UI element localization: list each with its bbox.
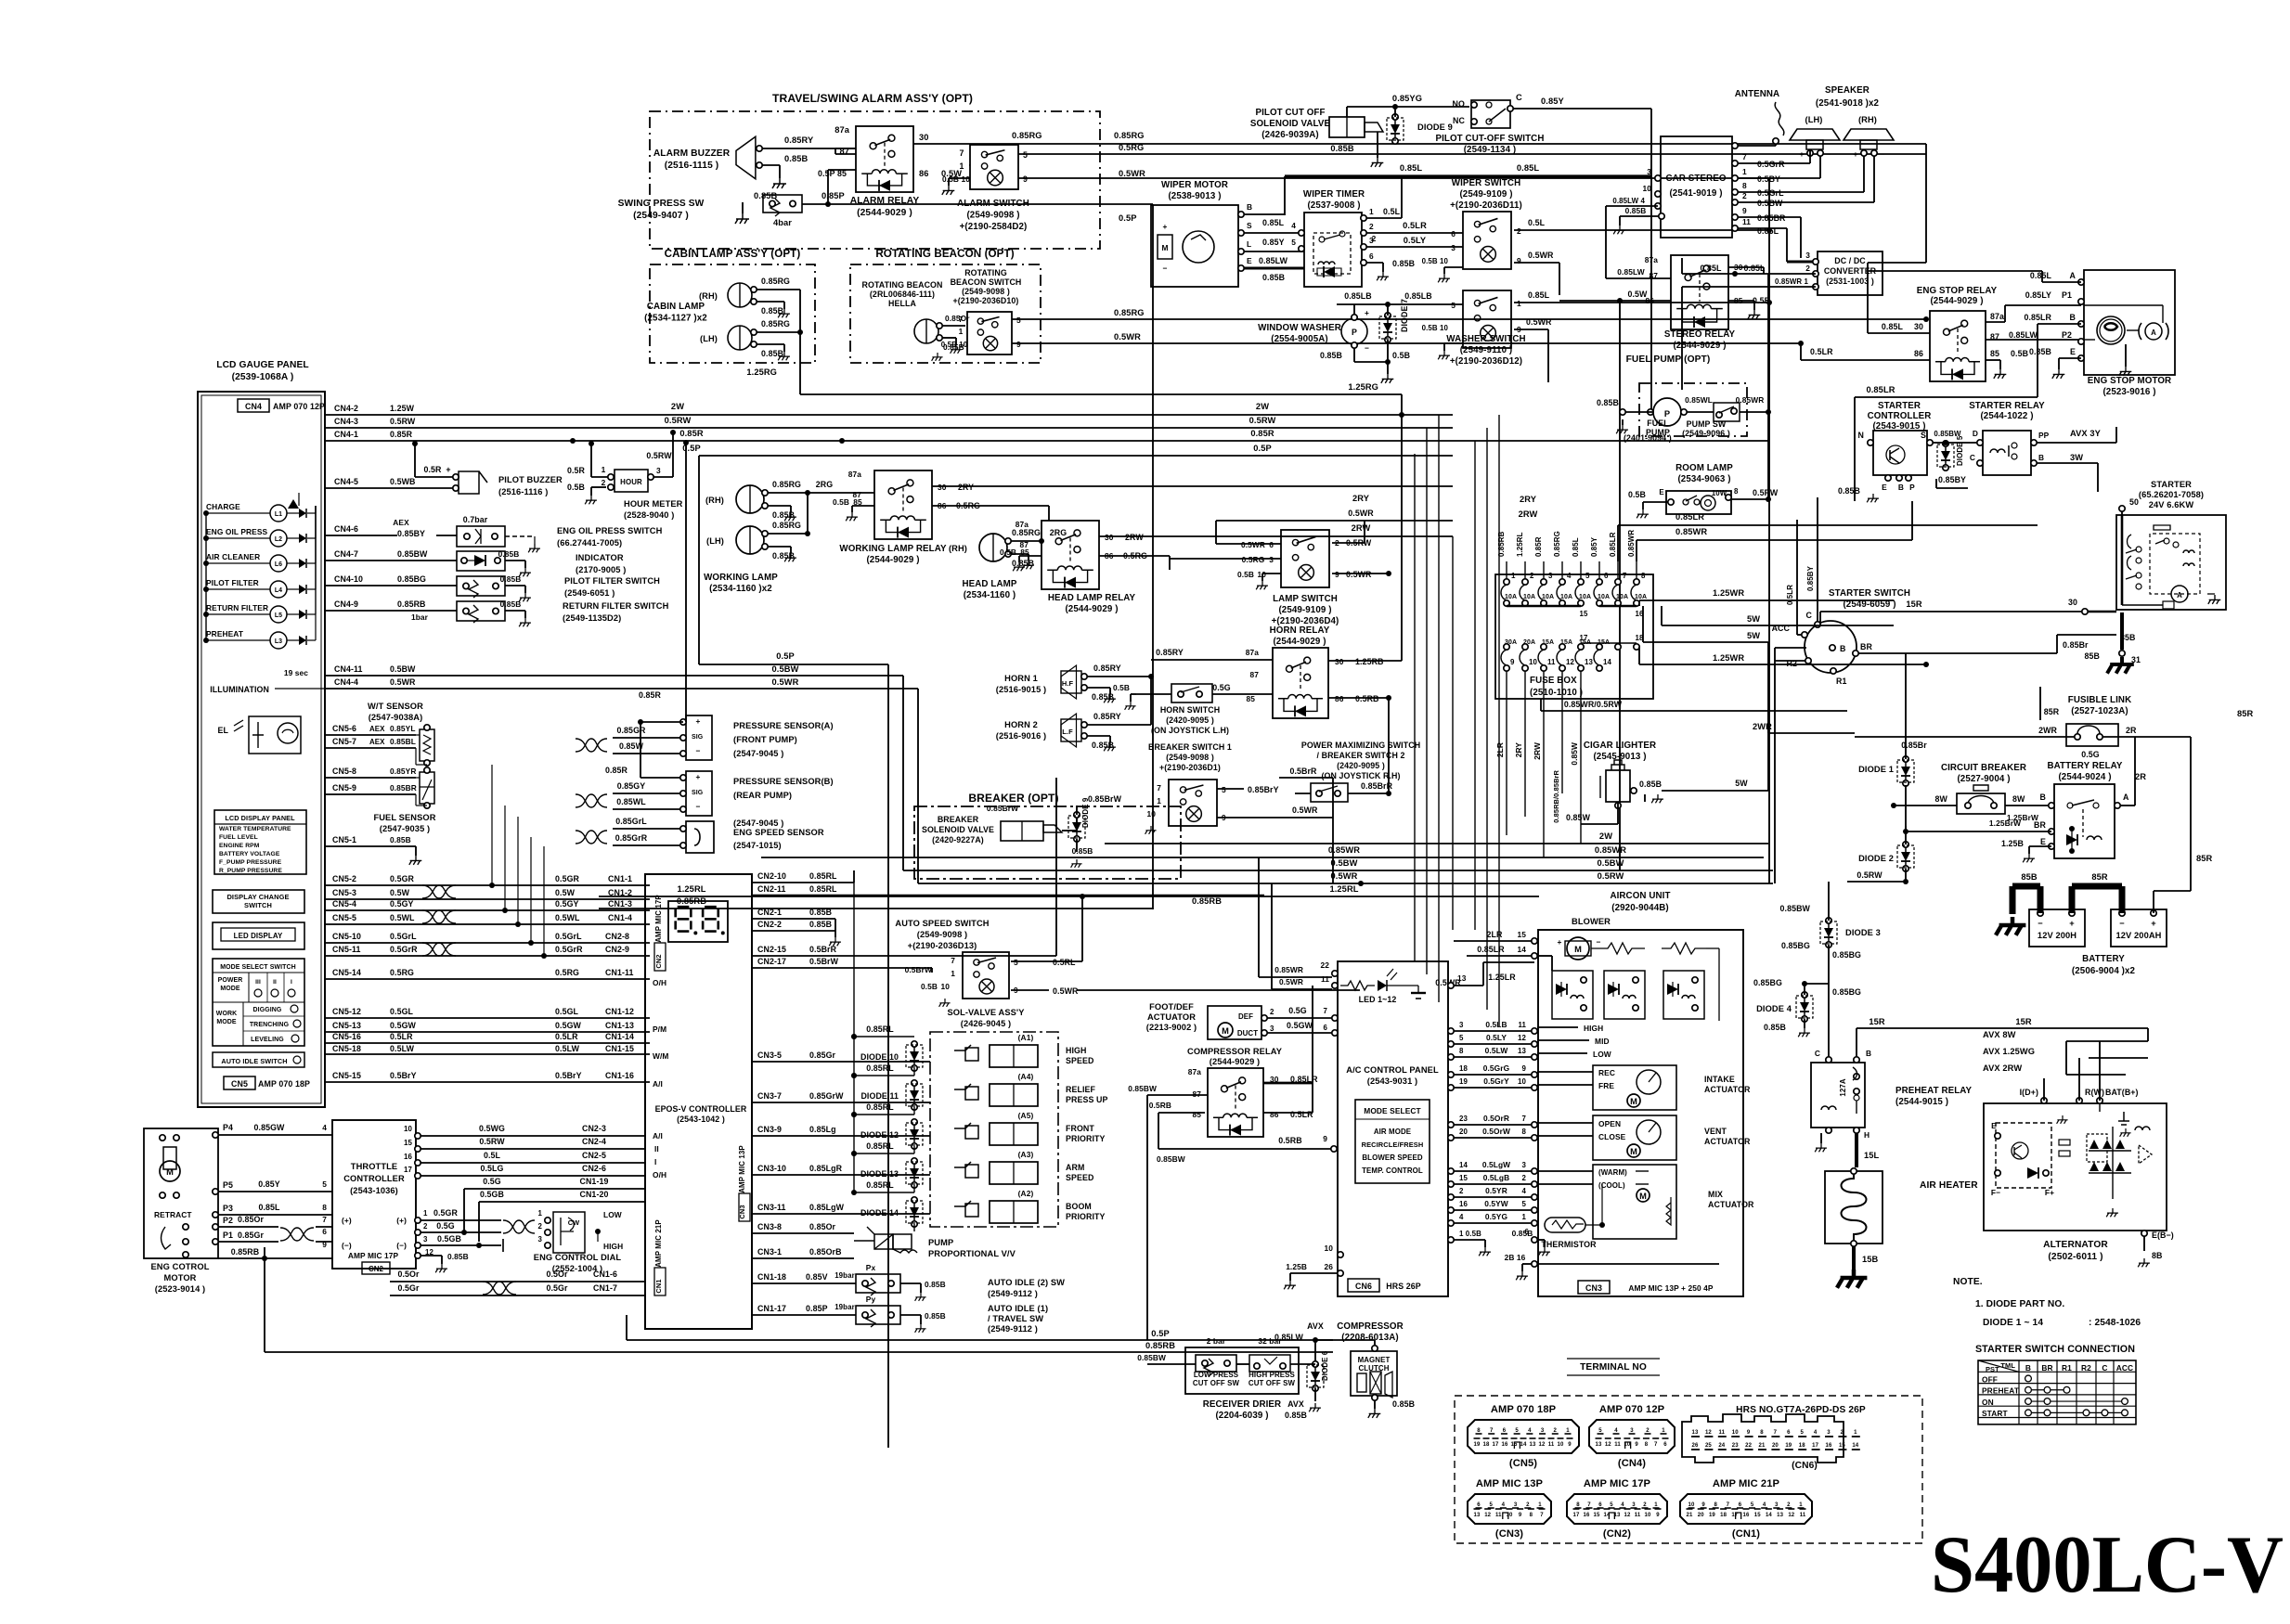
svg-text:0.5L: 0.5L xyxy=(1383,207,1401,216)
wire 0.5RB xyxy=(1149,1101,1337,1152)
svg-text:0.85Or: 0.85Or xyxy=(238,1215,265,1224)
svg-text:10W: 10W xyxy=(1712,489,1727,497)
svg-text:CN3: CN3 xyxy=(738,1205,746,1218)
horn 1 wires xyxy=(1087,664,1154,702)
svg-text:AIR CLEANER: AIR CLEANER xyxy=(206,552,260,561)
svg-text:14: 14 xyxy=(1766,1513,1772,1518)
svg-text:(CN5): (CN5) xyxy=(1509,1458,1537,1469)
wire 0.5P below xyxy=(828,204,1153,909)
svg-text:DIODE 3: DIODE 3 xyxy=(1845,928,1881,937)
CN5-15 wire xyxy=(325,1071,650,1082)
svg-text:4: 4 xyxy=(1621,1502,1624,1508)
svg-text:S400LC-V: S400LC-V xyxy=(1931,1520,2284,1610)
svg-text:9: 9 xyxy=(1323,1134,1327,1143)
svg-text:0.85BrW: 0.85BrW xyxy=(1088,794,1122,804)
alternator rectifier xyxy=(2087,1127,2152,1217)
svg-text:11: 11 xyxy=(1321,974,1329,984)
svg-text:0.85B: 0.85B xyxy=(1262,273,1285,282)
washer sw labels xyxy=(1422,299,1521,359)
svg-text:B: B xyxy=(1840,644,1845,653)
svg-text:2LR: 2LR xyxy=(1495,742,1505,757)
CN5-7 wire xyxy=(325,737,416,748)
svg-text:0.5B: 0.5B xyxy=(921,982,938,991)
svg-text:7: 7 xyxy=(1522,1115,1527,1123)
connector CN2 xyxy=(1567,1478,1667,1540)
svg-text:0.85V: 0.85V xyxy=(806,1272,828,1282)
eng speed sensor xyxy=(576,817,824,853)
svg-text:0.5B: 0.5B xyxy=(1237,570,1254,579)
receiver drier 32bar xyxy=(1249,1336,1296,1387)
svg-text:B: B xyxy=(2040,793,2046,802)
stereo wire 0.85BR xyxy=(1738,217,1801,258)
throttle dial wires xyxy=(420,1208,535,1272)
svg-text:9: 9 xyxy=(1016,340,1021,349)
svg-text:0.5BW: 0.5BW xyxy=(1331,858,1358,868)
svg-text:(2549-9096 ): (2549-9096 ) xyxy=(1682,429,1730,438)
wire 0.5WR xyxy=(1018,169,1769,883)
svg-text:LOW: LOW xyxy=(1593,1050,1611,1059)
wiper motor label xyxy=(1161,180,1228,201)
svg-text:DC / DC: DC / DC xyxy=(1834,256,1866,265)
car stereo pins right xyxy=(1732,143,1738,231)
svg-text:PST: PST xyxy=(1986,1365,1999,1373)
svg-text:0.85RL: 0.85RL xyxy=(866,1025,894,1034)
svg-text:CN2-4: CN2-4 xyxy=(582,1137,606,1146)
svg-text:CLOSE: CLOSE xyxy=(1598,1132,1626,1141)
svg-text:30: 30 xyxy=(938,483,947,492)
svg-text:M: M xyxy=(1222,1026,1229,1036)
svg-text:N: N xyxy=(1858,431,1864,440)
svg-text:0.85B: 0.85B xyxy=(1625,206,1647,215)
svg-text:2LR: 2LR xyxy=(1487,930,1504,939)
svg-text:19 sec: 19 sec xyxy=(284,668,308,677)
svg-text:19bar: 19bar xyxy=(834,1271,855,1280)
washer switch box xyxy=(1463,290,1511,348)
wire 0.85B buzzer gnd xyxy=(762,154,808,188)
svg-text:B: B xyxy=(1898,483,1904,492)
room lamp label xyxy=(1675,463,1733,484)
svg-text:(2534-1127 )x2: (2534-1127 )x2 xyxy=(644,314,707,324)
svg-text:BLOWER SPEED: BLOWER SPEED xyxy=(1362,1154,1423,1162)
svg-text:(2544-9029 ): (2544-9029 ) xyxy=(1210,1057,1260,1066)
svg-text:(2549-9112 ): (2549-9112 ) xyxy=(988,1324,1038,1334)
svg-text:AMP 070 18P: AMP 070 18P xyxy=(258,1079,310,1089)
svg-text:S: S xyxy=(1247,221,1252,230)
svg-text:DISPLAY CHANGE: DISPLAY CHANGE xyxy=(226,893,289,901)
svg-text:PREHEAT: PREHEAT xyxy=(206,629,244,638)
pilot buzzer wire CN4-5 xyxy=(325,477,459,488)
svg-text:86: 86 xyxy=(1335,694,1344,703)
throttle controller box xyxy=(332,1120,416,1274)
svg-text:0.5RB: 0.5RB xyxy=(1149,1101,1171,1110)
svg-text:0.85B: 0.85B xyxy=(1639,780,1662,789)
svg-text:0.5GR: 0.5GR xyxy=(433,1208,459,1218)
svg-text:12: 12 xyxy=(1705,1430,1712,1436)
svg-text:CN4-5: CN4-5 xyxy=(334,477,358,486)
work mode rows xyxy=(216,1002,304,1046)
svg-text:0.85RL: 0.85RL xyxy=(809,884,837,894)
svg-text:2RW: 2RW xyxy=(1125,533,1144,542)
svg-text:1 0.5B: 1 0.5B xyxy=(1459,1230,1481,1238)
svg-text:AUTO SPEED SWITCH: AUTO SPEED SWITCH xyxy=(895,919,989,928)
svg-text:CN3-9: CN3-9 xyxy=(757,1125,782,1134)
svg-text:0.5LR: 0.5LR xyxy=(1786,585,1794,605)
svg-text:14: 14 xyxy=(1518,945,1527,954)
circuit breaker xyxy=(1935,763,2027,814)
svg-text:BOOM: BOOM xyxy=(1066,1202,1092,1211)
auto speed wires xyxy=(1011,896,1461,996)
rotating beacon lamp xyxy=(914,319,942,343)
svg-text:BR: BR xyxy=(2041,1363,2052,1373)
svg-text:AMP MIC 21P: AMP MIC 21P xyxy=(1713,1478,1780,1489)
svg-text:0.85RB: 0.85RB xyxy=(231,1247,260,1257)
svg-text:3: 3 xyxy=(1647,167,1651,176)
svg-text:Px: Px xyxy=(866,1263,876,1272)
svg-text:23: 23 xyxy=(1459,1115,1468,1123)
svg-text:0.5P: 0.5P xyxy=(1119,213,1137,223)
svg-text:(2544-9024 ): (2544-9024 ) xyxy=(2058,772,2111,782)
svg-text:−: − xyxy=(1827,149,1831,159)
speaker LH xyxy=(1790,115,1840,159)
svg-text:HORN 1: HORN 1 xyxy=(1004,674,1038,683)
svg-text:AUTO IDLE (1): AUTO IDLE (1) xyxy=(988,1304,1048,1313)
lamp switch wires xyxy=(1170,509,1453,589)
svg-text:2W: 2W xyxy=(671,402,684,411)
svg-text:(2204-6039 ): (2204-6039 ) xyxy=(1215,1411,1268,1421)
svg-text:LEVELING: LEVELING xyxy=(251,1037,284,1043)
wire 0.85BY xyxy=(1936,475,1968,488)
svg-text:DIODE 9: DIODE 9 xyxy=(1417,122,1453,132)
svg-text:DIODE 1 ~ 14: DIODE 1 ~ 14 xyxy=(1983,1318,2043,1328)
preheat relay out xyxy=(1815,1128,1879,1167)
svg-text:16: 16 xyxy=(1743,1513,1750,1518)
retract xyxy=(154,1210,192,1257)
svg-text:17: 17 xyxy=(1812,1443,1818,1449)
wire 0.5LY xyxy=(1366,236,1463,247)
svg-text:9: 9 xyxy=(1519,1513,1522,1518)
svg-text:0.85L: 0.85L xyxy=(1400,163,1422,173)
svg-text:10: 10 xyxy=(1507,1513,1513,1518)
svg-text:ALARM BUZZER: ALARM BUZZER xyxy=(653,148,731,159)
svg-text:2 bar: 2 bar xyxy=(1207,1336,1226,1346)
svg-text:0.85R: 0.85R xyxy=(390,430,413,439)
svg-text:0.85GR: 0.85GR xyxy=(616,726,646,735)
svg-text:0.5GW: 0.5GW xyxy=(390,1021,417,1030)
svg-text:0.85RB: 0.85RB xyxy=(397,599,426,609)
svg-text:0.5LR: 0.5LR xyxy=(1290,1110,1313,1119)
svg-text:0.5GrY: 0.5GrY xyxy=(1483,1076,1509,1086)
svg-text:0.5BrY: 0.5BrY xyxy=(390,1071,417,1080)
svg-text:ANTENNA: ANTENNA xyxy=(1735,89,1779,99)
svg-text:0.85Br: 0.85Br xyxy=(2063,640,2089,650)
svg-text:LCD GAUGE PANEL: LCD GAUGE PANEL xyxy=(216,360,309,370)
svg-text:2R: 2R xyxy=(2126,726,2137,735)
svg-text:0.85B: 0.85B xyxy=(925,1311,946,1321)
svg-text:(2547-9035 ): (2547-9035 ) xyxy=(380,824,430,833)
svg-text:EL: EL xyxy=(218,726,229,735)
wire 0.5P down xyxy=(699,651,888,1448)
wire 0.85BW long xyxy=(1147,1095,1185,1340)
svg-text:COMPRESSOR RELAY: COMPRESSOR RELAY xyxy=(1187,1047,1283,1056)
svg-text:CN5-6: CN5-6 xyxy=(332,724,356,733)
svg-text:0.5RW: 0.5RW xyxy=(1753,488,1779,497)
svg-text:CN1-16: CN1-16 xyxy=(605,1071,634,1080)
blower relay 1 xyxy=(1552,971,1593,1019)
svg-text:(REAR PUMP): (REAR PUMP) xyxy=(733,791,792,800)
svg-text:CN2: CN2 xyxy=(654,954,663,968)
diode 2 xyxy=(1858,785,1988,871)
svg-text:SOLENOID VALVE: SOLENOID VALVE xyxy=(1250,119,1331,129)
wt sensor symbol xyxy=(416,725,434,766)
svg-text:0.85RY: 0.85RY xyxy=(1093,712,1121,721)
svg-text:CUT OFF SW: CUT OFF SW xyxy=(1193,1379,1240,1387)
CN3-11 wire xyxy=(752,1203,930,1214)
svg-text:12: 12 xyxy=(1484,1513,1491,1518)
svg-text:VENT: VENT xyxy=(1704,1127,1727,1136)
svg-text:CN2-6: CN2-6 xyxy=(582,1164,606,1173)
svg-text:W/M: W/M xyxy=(653,1051,668,1061)
svg-text:0.85GrL: 0.85GrL xyxy=(615,817,647,826)
CN4-7 wire + indicator xyxy=(325,549,626,576)
svg-text:RECEIVER DRIER: RECEIVER DRIER xyxy=(1203,1399,1281,1410)
svg-text:7: 7 xyxy=(1490,1428,1494,1434)
cabin lamp RH wires xyxy=(757,277,800,317)
svg-text:(2549-9098 ): (2549-9098 ) xyxy=(966,211,1019,221)
svg-text:8: 8 xyxy=(1742,181,1747,190)
svg-text:0.5LR: 0.5LR xyxy=(555,1032,578,1041)
svg-text:(2544-1022 ): (2544-1022 ) xyxy=(1980,411,2033,421)
svg-text:(2516-9015 ): (2516-9015 ) xyxy=(996,685,1046,694)
starter box xyxy=(2116,480,2226,610)
auto idle 2 sw xyxy=(856,1263,1065,1301)
svg-text:6: 6 xyxy=(1451,229,1456,238)
svg-text:SIG: SIG xyxy=(692,734,703,741)
svg-text:2RY: 2RY xyxy=(958,483,974,492)
svg-text:24V 6.6KW: 24V 6.6KW xyxy=(2149,500,2194,509)
cabin lamp label xyxy=(644,302,707,324)
psA label xyxy=(733,721,834,758)
window washer xyxy=(1258,308,1369,353)
connector CN1 xyxy=(1680,1478,1812,1540)
stereo speaker wires xyxy=(1738,150,1874,202)
svg-text:CN3-11: CN3-11 xyxy=(757,1203,786,1212)
sol valve 0.85RL feeds xyxy=(851,1025,905,1190)
diode 1 xyxy=(1858,687,1927,786)
svg-text:0.85RY: 0.85RY xyxy=(1156,648,1184,657)
svg-text:(2510-1010 ): (2510-1010 ) xyxy=(1530,688,1583,698)
svg-text:0.85B: 0.85B xyxy=(925,1280,946,1289)
horn relay wires xyxy=(1151,415,1402,738)
starter relay wires xyxy=(2037,427,2116,492)
svg-text:(2543-9015 ): (2543-9015 ) xyxy=(1872,421,1925,432)
svg-text:WORK: WORK xyxy=(216,1011,237,1017)
svg-text:(2534-1160 )x2: (2534-1160 )x2 xyxy=(709,584,772,594)
svg-text:0.5RW: 0.5RW xyxy=(665,416,692,425)
svg-text:(2516-1116 ): (2516-1116 ) xyxy=(498,487,548,496)
wire 5W a xyxy=(1662,606,1894,737)
svg-text:0.85B: 0.85B xyxy=(809,920,832,929)
CN4 bus CN4-2 xyxy=(325,402,1453,415)
svg-text:0.5RW: 0.5RW xyxy=(390,417,416,426)
svg-text:−: − xyxy=(696,746,701,755)
rotating beacon label xyxy=(862,280,943,308)
svg-text:ROOM LAMP: ROOM LAMP xyxy=(1675,463,1733,473)
svg-text:CN5-9: CN5-9 xyxy=(332,783,356,793)
svg-text:10: 10 xyxy=(1558,1442,1564,1448)
svg-text:85R: 85R xyxy=(2237,709,2254,718)
breaker sw1 wires xyxy=(1145,785,1333,883)
svg-text:BREAKER: BREAKER xyxy=(938,815,979,824)
svg-text:0.85BY: 0.85BY xyxy=(1938,475,1966,484)
svg-text:POWER MAXIMIZING SWITCH: POWER MAXIMIZING SWITCH xyxy=(1301,741,1420,750)
svg-text:SPEAKER: SPEAKER xyxy=(1825,85,1870,96)
battery relay internals xyxy=(2066,800,2102,854)
svg-text:15: 15 xyxy=(1580,610,1588,618)
svg-text:WORKING LAMP RELAY: WORKING LAMP RELAY xyxy=(839,544,947,554)
svg-text:20: 20 xyxy=(1698,1513,1704,1518)
svg-text:MODE: MODE xyxy=(220,986,240,992)
svg-text:0.5WG: 0.5WG xyxy=(479,1124,505,1133)
svg-text:M: M xyxy=(1630,1097,1637,1106)
dcdc pins xyxy=(1775,251,1818,290)
svg-text:CW: CW xyxy=(568,1218,580,1227)
svg-text:(2420-9227A): (2420-9227A) xyxy=(932,835,984,844)
alternator wires right xyxy=(2044,1028,2163,1267)
svg-text:DIGGING: DIGGING xyxy=(253,1007,282,1013)
svg-text:15: 15 xyxy=(1839,1443,1845,1449)
svg-text:PILOT CUT-OFF SWITCH: PILOT CUT-OFF SWITCH xyxy=(1435,134,1544,144)
svg-text:2: 2 xyxy=(1372,234,1377,243)
svg-text:CN4-3: CN4-3 xyxy=(334,417,358,426)
svg-text:8W: 8W xyxy=(2012,794,2025,804)
svg-text:FRONT: FRONT xyxy=(1066,1124,1094,1133)
svg-text:1bar: 1bar xyxy=(411,612,429,622)
eng stop motor pins xyxy=(2062,271,2084,361)
svg-text:HOUR METER: HOUR METER xyxy=(624,499,683,509)
svg-text:2RY: 2RY xyxy=(1352,494,1370,503)
svg-text:(2420-9095 ): (2420-9095 ) xyxy=(1337,761,1385,770)
svg-text:6: 6 xyxy=(1525,1228,1530,1236)
svg-text:(2516-1115 ): (2516-1115 ) xyxy=(665,161,719,171)
ac panel right pins xyxy=(1448,1020,1537,1226)
terminal dashed box xyxy=(1455,1396,1922,1543)
psB wires xyxy=(576,719,680,809)
svg-text:SWING PRESS SW: SWING PRESS SW xyxy=(618,199,705,209)
svg-text:+: + xyxy=(1163,222,1168,231)
svg-text:ENG OIL PRESS: ENG OIL PRESS xyxy=(206,527,268,536)
pressure switch 4bar xyxy=(763,191,845,227)
svg-text:3: 3 xyxy=(1541,1428,1545,1434)
rotating beacon switch label xyxy=(951,268,1022,305)
svg-text:(2549-9109 ): (2549-9109 ) xyxy=(1459,189,1512,200)
svg-text:HORN 2: HORN 2 xyxy=(1004,720,1038,729)
svg-text:P/M: P/M xyxy=(653,1025,666,1034)
horn relay xyxy=(1270,625,1330,718)
svg-text:CAR STEREO: CAR STEREO xyxy=(1665,174,1726,184)
pressure sensor A wires xyxy=(0,0,1,1)
svg-text:STEREO RELAY: STEREO RELAY xyxy=(1664,329,1736,340)
cabin lamp assy box xyxy=(650,248,815,363)
svg-text:PILOT CUT OFF: PILOT CUT OFF xyxy=(1255,108,1325,118)
terminal no label xyxy=(1567,1359,1660,1375)
pump prop valve xyxy=(854,1227,1016,1258)
wiper switch box xyxy=(1463,212,1511,269)
svg-text:PILOT BUZZER: PILOT BUZZER xyxy=(498,475,563,484)
svg-text:0.85YG: 0.85YG xyxy=(1392,94,1422,103)
svg-text:CABIN LAMP: CABIN LAMP xyxy=(647,302,705,312)
svg-text:10A: 10A xyxy=(1523,594,1535,600)
svg-text:REC: REC xyxy=(1598,1068,1615,1077)
svg-text:1: 1 xyxy=(959,161,964,171)
svg-text:+(2190-2036D4): +(2190-2036D4) xyxy=(1272,616,1339,626)
svg-text:0.5LB: 0.5LB xyxy=(1485,1020,1507,1029)
svg-text:0.5W: 0.5W xyxy=(390,888,410,897)
svg-text:P4: P4 xyxy=(223,1123,233,1132)
svg-text:CN1-3: CN1-3 xyxy=(608,899,632,909)
alternator box xyxy=(1984,1103,2167,1262)
speaker label xyxy=(1816,85,1880,109)
svg-text:BATTERY: BATTERY xyxy=(2082,954,2125,964)
svg-text:12: 12 xyxy=(1788,1513,1794,1518)
svg-text:0.85LW: 0.85LW xyxy=(2009,330,2038,340)
starter switch pins xyxy=(1772,611,1873,686)
horn 1 xyxy=(996,665,1087,699)
alarm relay xyxy=(850,126,920,218)
diodes 10-14 xyxy=(851,883,923,1231)
pilot cut off solenoid label xyxy=(1250,108,1331,140)
svg-text:14: 14 xyxy=(1603,658,1611,666)
svg-text:HIGH: HIGH xyxy=(603,1242,623,1251)
svg-text:2WR: 2WR xyxy=(1753,722,1772,731)
svg-text:4: 4 xyxy=(1522,1187,1527,1195)
svg-text:2: 2 xyxy=(1841,1430,1844,1436)
eng stop relay wires xyxy=(1801,144,2081,379)
svg-text:8: 8 xyxy=(1645,1442,1649,1448)
svg-text:CN3-1: CN3-1 xyxy=(757,1247,782,1257)
svg-text:PRIORITY: PRIORITY xyxy=(1066,1134,1106,1143)
svg-text:(2549-9098 ): (2549-9098 ) xyxy=(1166,753,1214,762)
svg-text:7: 7 xyxy=(1727,1502,1730,1508)
svg-text:FRE: FRE xyxy=(1598,1081,1614,1090)
svg-text:(2549-6051 ): (2549-6051 ) xyxy=(564,588,615,598)
svg-text:22: 22 xyxy=(1321,960,1330,970)
svg-text:0.85B: 0.85B xyxy=(1072,846,1093,856)
svg-text:CN5-8: CN5-8 xyxy=(332,767,356,776)
svg-text:(+): (+) xyxy=(342,1216,352,1225)
breaker sw1 pins xyxy=(1147,783,1227,822)
svg-text:CIRCUIT BREAKER: CIRCUIT BREAKER xyxy=(1941,763,2026,773)
svg-text:24: 24 xyxy=(1718,1443,1725,1449)
svg-text:+(2190-2036D1): +(2190-2036D1) xyxy=(1159,763,1221,772)
svg-text:3: 3 xyxy=(1805,251,1810,260)
svg-text:L1: L1 xyxy=(275,511,282,518)
wire 0.85BG down xyxy=(1829,950,1861,1063)
CN4 bus CN4-1 xyxy=(325,429,1769,444)
svg-text:CN5: CN5 xyxy=(231,1079,248,1089)
svg-text:(2547-9045 ): (2547-9045 ) xyxy=(733,818,783,828)
svg-text:0.85R: 0.85R xyxy=(605,766,628,775)
alarm buzzer xyxy=(653,136,762,179)
alarm relay pin labels xyxy=(818,125,962,178)
svg-text:6: 6 xyxy=(1269,540,1274,549)
svg-text:0.5RW: 0.5RW xyxy=(1249,416,1276,425)
svg-text:1: 1 xyxy=(1654,1502,1658,1508)
svg-text:1: 1 xyxy=(1511,572,1516,580)
wire 2WR xyxy=(1753,711,1855,737)
svg-text:(2549-9098 ): (2549-9098 ) xyxy=(917,930,967,939)
throttle 0.5Gr CN1-7 xyxy=(390,1282,645,1295)
svg-text:1: 1 xyxy=(1662,1428,1665,1434)
